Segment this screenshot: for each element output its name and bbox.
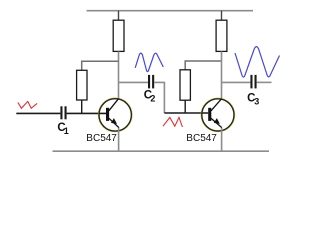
wire collector Q1 to C2 xyxy=(119,81,149,83)
resistor R3 xyxy=(180,70,190,100)
svg-text:1: 1 xyxy=(64,126,69,136)
wire collector Q2 to C3 xyxy=(222,81,251,83)
transistor Q2 xyxy=(201,98,235,132)
capacitor C3 xyxy=(250,75,256,89)
wire input xyxy=(16,112,60,114)
resistor R4 xyxy=(216,20,227,51)
Vcc top rail xyxy=(87,10,254,12)
wire C1 to base Q1 xyxy=(67,112,106,114)
resistor R2 xyxy=(113,20,124,51)
svg-text:BC547: BC547 xyxy=(186,133,217,144)
wire base Q2 xyxy=(164,112,208,114)
transistor Q1 xyxy=(98,98,132,132)
svg-text:3: 3 xyxy=(254,96,259,106)
resistor R2 stub to rail xyxy=(118,11,120,21)
wire C2 to corner xyxy=(154,82,164,113)
wire output stub xyxy=(257,81,272,83)
waveform stage2 output blue sine xyxy=(235,47,280,77)
wire bias feedback stage2 xyxy=(185,61,221,70)
capacitor C1 xyxy=(60,106,66,119)
resistor R1 xyxy=(77,70,87,100)
wire bias feedback stage1 xyxy=(82,61,119,70)
svg-text:2: 2 xyxy=(150,93,155,103)
resistor R4 stub to rail xyxy=(221,11,223,21)
resistor R1 bottom stub xyxy=(81,100,83,113)
waveform input red sine xyxy=(18,101,37,108)
waveform stage2 input red sine xyxy=(163,117,182,127)
wire collector line Q2 xyxy=(221,51,223,98)
wire collector line Q1 xyxy=(118,51,120,98)
waveform stage1 output blue sine xyxy=(135,53,163,72)
capacitor C2 xyxy=(148,75,154,89)
wire emitter Q2 to ground xyxy=(221,128,223,152)
wire emitter Q1 to ground xyxy=(118,128,120,152)
ground bottom rail xyxy=(53,150,270,152)
svg-text:BC547: BC547 xyxy=(86,133,117,144)
resistor R3 bottom stub xyxy=(184,100,186,113)
